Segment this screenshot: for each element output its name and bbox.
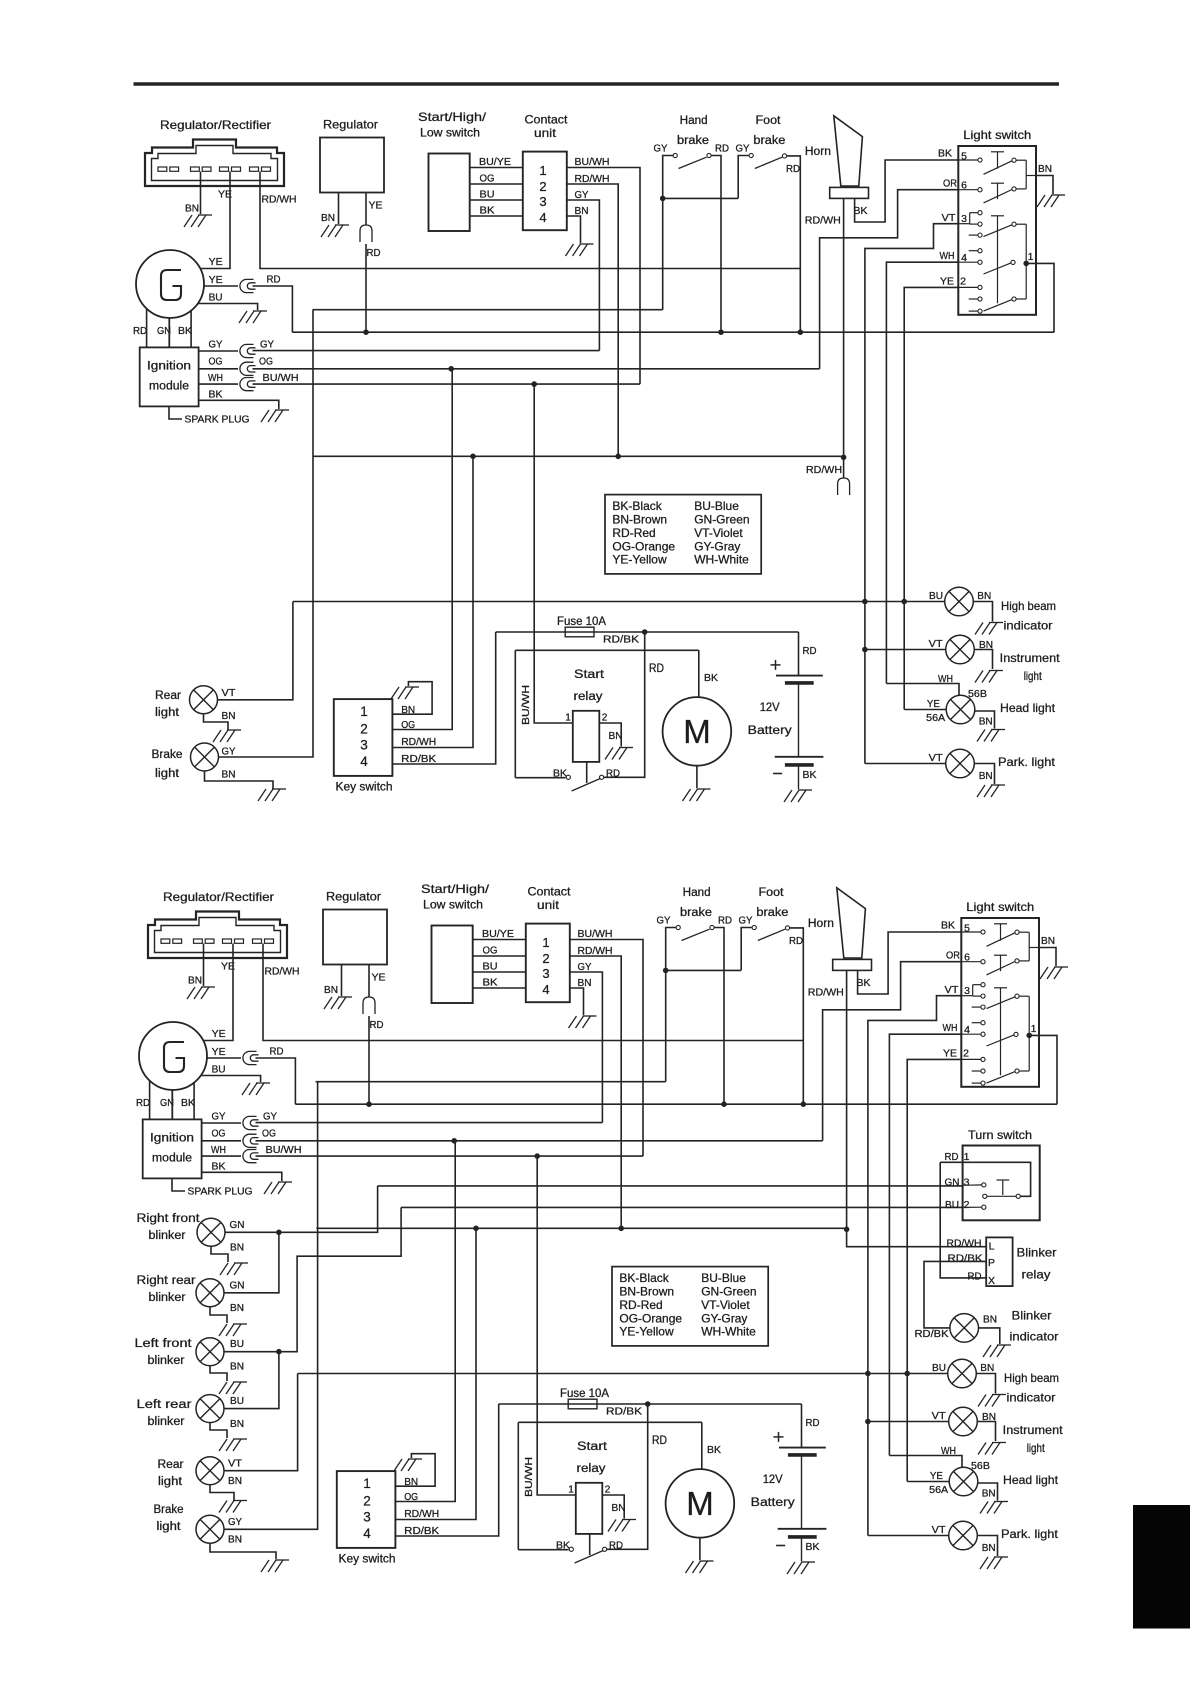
label 56B (B) bbox=[971, 1460, 990, 1472]
svg-text:YE: YE bbox=[943, 1047, 957, 1059]
svg-text:OG: OG bbox=[401, 719, 415, 731]
box Turn switch (B) bbox=[963, 1146, 1040, 1221]
legend colour codes (A) bbox=[605, 495, 761, 574]
battery 12V (B) bbox=[778, 1448, 827, 1561]
label Start/High/ Low switch (B) bbox=[421, 882, 490, 912]
label BN (B) bbox=[230, 1361, 244, 1373]
svg-text:BU: BU bbox=[483, 961, 498, 973]
wire key switch BN (A) bbox=[392, 682, 432, 715]
label GY (A) bbox=[654, 143, 668, 155]
svg-text:YE: YE bbox=[372, 972, 386, 984]
label RD GN BK (B) bbox=[136, 1097, 195, 1109]
label Rear light (A) bbox=[155, 690, 181, 719]
svg-text:BN: BN bbox=[230, 1242, 244, 1254]
svg-text:M: M bbox=[683, 713, 711, 750]
ground right rear blinker (B) bbox=[219, 1324, 247, 1336]
label High beam indicator (B) bbox=[1004, 1371, 1059, 1405]
wire brake light GY (A) bbox=[219, 310, 314, 757]
wire BU/YE switch-to-contact-unit (B) bbox=[473, 939, 527, 941]
ground blinker indicator (B) bbox=[983, 1345, 1011, 1357]
svg-text:Rear: Rear bbox=[155, 690, 181, 702]
label Left rear blinker (B) bbox=[137, 1399, 192, 1428]
switch Hand brake (B) bbox=[676, 925, 714, 940]
label OR (A) bbox=[943, 178, 957, 190]
svg-text:GY: GY bbox=[657, 915, 671, 927]
wire foot brake RD side (A) bbox=[787, 156, 801, 332]
connector pin slot 2 (B) bbox=[194, 939, 215, 943]
svg-text:BK: BK bbox=[704, 672, 718, 684]
svg-text:RD: RD bbox=[606, 768, 620, 780]
label GY (A) bbox=[736, 143, 750, 155]
svg-text:2: 2 bbox=[363, 1494, 371, 1509]
label Fuse 10A (A) bbox=[557, 616, 606, 628]
svg-text:BU/WH: BU/WH bbox=[523, 1457, 535, 1497]
wire key switch RD/WH (A) bbox=[392, 456, 473, 747]
svg-text:YE: YE bbox=[209, 256, 223, 268]
box Regulator (B) bbox=[323, 910, 387, 965]
svg-text:BU/YE: BU/YE bbox=[479, 156, 511, 168]
svg-text:VT: VT bbox=[228, 1458, 243, 1470]
wire WH feed light switch (B) bbox=[889, 1034, 961, 1455]
wire BU switch-to-contact-unit (B) bbox=[473, 971, 527, 973]
svg-text:BK: BK bbox=[803, 769, 817, 781]
label Head light (B) bbox=[1003, 1473, 1059, 1487]
junction on high beam run 2 (A) bbox=[902, 599, 907, 604]
wire BU/WH contact unit to module line (B) bbox=[569, 940, 643, 1157]
label RD/BK (B) bbox=[606, 1406, 642, 1418]
wire hand-to-foot brake link (A) bbox=[663, 197, 739, 199]
label BN (B) bbox=[230, 1242, 244, 1254]
generator G (B) bbox=[139, 1022, 207, 1090]
ground right front blinker (B) bbox=[220, 1263, 248, 1275]
svg-text:GY: GY bbox=[739, 915, 753, 927]
label Key switch (B) bbox=[339, 1554, 396, 1566]
svg-text:RD: RD bbox=[133, 325, 147, 337]
ground key switch BN (A) bbox=[391, 687, 419, 699]
label - battery (A) bbox=[773, 773, 782, 775]
svg-text:GN-Green: GN-Green bbox=[694, 513, 749, 527]
junction horn RD/WH (A) bbox=[841, 455, 846, 460]
svg-text:VT: VT bbox=[945, 984, 960, 996]
svg-text:3: 3 bbox=[542, 966, 549, 981]
ground brake light (A) bbox=[258, 789, 286, 801]
ground battery (B) bbox=[787, 1562, 815, 1574]
svg-text:RD: RD bbox=[789, 935, 803, 947]
svg-text:Foot: Foot bbox=[759, 887, 785, 899]
wire BN contact unit (A) bbox=[566, 216, 580, 243]
svg-text:Start/High/: Start/High/ bbox=[421, 882, 490, 896]
motor M (B) bbox=[666, 1469, 735, 1538]
label 1 (B) bbox=[568, 1485, 574, 1496]
svg-text:BK: BK bbox=[209, 389, 223, 401]
svg-text:indicator: indicator bbox=[1010, 1330, 1059, 1344]
ground high beam (A) bbox=[975, 623, 1003, 635]
wire YE from regulator (A) bbox=[365, 193, 367, 226]
label RD (B) bbox=[968, 1271, 982, 1283]
svg-text:Battery: Battery bbox=[748, 725, 792, 737]
label Blinker relay (B) bbox=[1017, 1246, 1057, 1282]
junction on high beam run 2 (B) bbox=[905, 1371, 910, 1376]
svg-text:RD/WH: RD/WH bbox=[806, 464, 842, 476]
label Regulator/Rectifier (B) bbox=[163, 890, 274, 904]
label RD/WH (A) bbox=[806, 464, 842, 476]
ground relay pin2 (B) bbox=[608, 1520, 636, 1532]
svg-text:L: L bbox=[989, 1241, 995, 1253]
label BU (B) bbox=[483, 961, 498, 973]
wire generator GN to module (A) bbox=[168, 318, 170, 347]
label BN (A) bbox=[222, 710, 236, 722]
label BN (B) bbox=[980, 1362, 994, 1374]
svg-text:GY: GY bbox=[736, 143, 750, 155]
svg-text:BN: BN bbox=[982, 1488, 996, 1500]
wire BU/WH contact unit to module line (A) bbox=[566, 168, 640, 385]
label 12V Battery (B) bbox=[751, 1474, 795, 1509]
label BN (B) bbox=[1041, 935, 1055, 947]
label RD GN BK (A) bbox=[133, 325, 192, 337]
wire left front blinker BN (B) bbox=[210, 1365, 227, 1381]
label Blinker indicator (B) bbox=[1010, 1309, 1059, 1344]
svg-text:X: X bbox=[988, 1275, 995, 1287]
label BN (B) bbox=[612, 1502, 626, 1514]
wire relay loop top (B) bbox=[518, 1421, 702, 1423]
junction left blinkers (B) bbox=[277, 1349, 282, 1354]
label BU/YE (A) bbox=[479, 156, 511, 168]
label Right front blinker (B) bbox=[137, 1213, 201, 1242]
label 56A (B) bbox=[929, 1484, 948, 1496]
contact BK start relay (B) bbox=[569, 1547, 573, 1551]
wire module GY to fork (A) bbox=[199, 350, 238, 352]
svg-text:2: 2 bbox=[605, 1485, 611, 1496]
svg-text:Blinker: Blinker bbox=[1017, 1246, 1057, 1260]
svg-text:GY: GY bbox=[263, 1111, 277, 1123]
connector fork GY (B) bbox=[243, 1116, 259, 1129]
label VT (A) bbox=[942, 212, 957, 224]
wire module WH to fork (B) bbox=[202, 1155, 241, 1157]
label Hand brake (A) bbox=[677, 115, 709, 147]
wire key switch RD/BK (A) bbox=[392, 632, 495, 764]
connector pin slot 3 (B) bbox=[223, 939, 244, 943]
wire foot brake RD side (B) bbox=[790, 928, 804, 1104]
wire hand-to-foot brake link (B) bbox=[666, 969, 742, 971]
svg-text:Park. light: Park. light bbox=[998, 755, 1056, 769]
svg-text:4: 4 bbox=[539, 210, 546, 225]
svg-text:BU/WH: BU/WH bbox=[263, 372, 299, 384]
lamp Right front blinker (B) bbox=[197, 1218, 225, 1246]
label + battery (B) bbox=[774, 1432, 784, 1442]
lamp High beam indicator (B) bbox=[948, 1359, 977, 1388]
wire start relay armature stem (A) bbox=[586, 762, 588, 783]
wire generator BK to module (A) bbox=[190, 311, 192, 348]
svg-text:RD/BK: RD/BK bbox=[948, 1253, 983, 1265]
lamp Left front blinker (B) bbox=[196, 1338, 224, 1366]
wire VT park light run (A) bbox=[865, 763, 946, 765]
label BK (B) bbox=[941, 920, 955, 932]
wire turn switch BU pin 2 inside (B) bbox=[963, 1206, 982, 1208]
label BN (B) bbox=[982, 1542, 996, 1554]
wire main RD run (A) bbox=[292, 331, 1054, 333]
label YE (B) bbox=[221, 961, 235, 973]
label BN (A) bbox=[979, 770, 993, 782]
label Instrument light (B) bbox=[1003, 1423, 1064, 1455]
svg-text:56B: 56B bbox=[971, 1460, 990, 1472]
ground light switch BN (A) bbox=[1037, 195, 1065, 207]
wire RD/WH rectifier feed (A) bbox=[260, 172, 800, 269]
wire spark plug stub (B) bbox=[172, 1178, 185, 1191]
svg-text:Start/High/: Start/High/ bbox=[418, 110, 487, 124]
svg-text:1: 1 bbox=[565, 713, 571, 724]
svg-text:GN: GN bbox=[230, 1280, 245, 1292]
wire WH into head light (A) bbox=[886, 684, 959, 697]
label BK (B) bbox=[483, 977, 498, 989]
svg-text:GY-Gray: GY-Gray bbox=[694, 539, 740, 553]
svg-text:BU: BU bbox=[480, 189, 495, 201]
ground instrument light (B) bbox=[978, 1443, 1006, 1455]
label RD/WH (B) bbox=[947, 1238, 982, 1250]
svg-text:blinker: blinker bbox=[148, 1355, 185, 1367]
light switch internal contacts (A) bbox=[958, 152, 1036, 313]
svg-text:YE: YE bbox=[930, 1470, 943, 1482]
connector pin slot 4 (B) bbox=[253, 939, 274, 943]
svg-text:12V: 12V bbox=[763, 1474, 783, 1486]
label Regulator (A) bbox=[323, 118, 378, 132]
page top rule bbox=[134, 82, 1060, 86]
svg-text:Head light: Head light bbox=[1003, 1473, 1059, 1487]
svg-text:RD/WH: RD/WH bbox=[265, 966, 300, 978]
connector bullet horn lead (A) bbox=[838, 478, 850, 495]
svg-text:YE: YE bbox=[927, 698, 940, 710]
wire generator YE to fork (B) bbox=[207, 1057, 241, 1059]
junction foot brake RD (B) bbox=[801, 1102, 806, 1107]
svg-text:OG: OG bbox=[262, 1128, 276, 1140]
label Key switch (A) bbox=[336, 782, 393, 794]
wire relay loop bottom (B) bbox=[518, 1549, 568, 1551]
label WH (A) bbox=[938, 673, 953, 685]
svg-text:BN: BN bbox=[188, 975, 202, 987]
svg-text:BU-Blue: BU-Blue bbox=[701, 1271, 746, 1285]
label BN (B) bbox=[982, 1411, 996, 1423]
svg-text:light: light bbox=[158, 1476, 183, 1488]
svg-text:light: light bbox=[155, 768, 180, 780]
svg-text:blinker: blinker bbox=[149, 1230, 186, 1242]
box Key switch (B) bbox=[337, 1471, 396, 1548]
svg-text:Regulator: Regulator bbox=[326, 890, 381, 904]
lamp Brake light (B) bbox=[196, 1515, 224, 1543]
svg-text:RD: RD bbox=[270, 1046, 284, 1058]
svg-text:BN: BN bbox=[321, 212, 335, 224]
wire generator RD to module (B) bbox=[149, 1081, 151, 1120]
label OG (A) bbox=[401, 719, 415, 731]
lamp Rear light (A) bbox=[190, 686, 218, 714]
label YE (B) bbox=[372, 972, 386, 984]
wire left rear blinker BN (B) bbox=[210, 1422, 227, 1438]
wire module BK (B) bbox=[202, 1172, 282, 1181]
svg-text:Blinker: Blinker bbox=[1012, 1309, 1052, 1323]
wire generator YE to rectifier (A) bbox=[200, 172, 230, 269]
svg-text:VT: VT bbox=[932, 1524, 947, 1536]
svg-text:BK: BK bbox=[854, 205, 868, 217]
wire BN from rectifier pin 2 (B) bbox=[203, 944, 205, 987]
wire park light ground lead (B) bbox=[977, 1536, 997, 1557]
svg-text:GY: GY bbox=[212, 1111, 226, 1123]
ground contact unit BN (A) bbox=[566, 244, 594, 256]
svg-text:BN: BN bbox=[230, 1302, 244, 1314]
label Start relay (B) bbox=[577, 1441, 608, 1475]
svg-text:brake: brake bbox=[677, 135, 709, 147]
wire pin4 WH inside (A) bbox=[958, 261, 978, 263]
wire pin2 YE inside (A) bbox=[958, 286, 978, 288]
wire WH into head light (B) bbox=[889, 1456, 962, 1469]
svg-text:VT: VT bbox=[929, 752, 944, 764]
label BN (A) bbox=[401, 704, 415, 716]
generator G (A) bbox=[136, 250, 204, 318]
svg-text:BU: BU bbox=[932, 1362, 946, 1374]
wire light switch terminal 1 feed (B) bbox=[1029, 1035, 1057, 1104]
svg-text:BK-Black: BK-Black bbox=[619, 1271, 669, 1285]
svg-text:GY: GY bbox=[209, 339, 223, 351]
svg-text:56A: 56A bbox=[929, 1484, 948, 1496]
svg-text:Key switch: Key switch bbox=[336, 782, 393, 794]
wire key switch BN (B) bbox=[395, 1454, 435, 1487]
wire BN contact unit (B) bbox=[569, 988, 583, 1015]
connector Regulator/Rectifier shell (A) bbox=[145, 140, 284, 187]
wire RD fork to main feed (A) bbox=[253, 286, 293, 332]
svg-text:BU: BU bbox=[929, 590, 943, 602]
wire high beam ground lead (B) bbox=[976, 1374, 995, 1394]
wire RD regulator to main feed (A) bbox=[365, 244, 367, 332]
wire rear light VT (A) bbox=[218, 602, 293, 700]
svg-text:Park. light: Park. light bbox=[1001, 1527, 1059, 1541]
label BU (B) bbox=[932, 1362, 946, 1374]
wire relay coil pin2 (B) bbox=[602, 1495, 624, 1519]
svg-text:YE: YE bbox=[212, 1028, 226, 1040]
svg-text:RD: RD bbox=[649, 663, 664, 675]
box Ignition module (B) bbox=[143, 1119, 202, 1178]
wire GY contact unit down (B) bbox=[569, 972, 602, 1123]
wire generator YE to rectifier (B) bbox=[203, 944, 233, 1041]
wire motor ground lead (B) bbox=[699, 1538, 701, 1560]
wire rear light VT (B) bbox=[224, 1374, 298, 1471]
svg-text:BN: BN bbox=[222, 710, 236, 722]
wire RD to relay contact (A) bbox=[604, 632, 645, 777]
wire key switch OG (A) bbox=[392, 369, 452, 730]
lamp Right rear blinker (B) bbox=[196, 1279, 224, 1307]
svg-text:OG-Orange: OG-Orange bbox=[612, 539, 675, 553]
wire GY brake run (A) bbox=[313, 309, 663, 311]
box Ignition module (A) bbox=[140, 347, 199, 406]
ground instrument light (A) bbox=[975, 671, 1003, 683]
label YE (A) bbox=[209, 256, 223, 268]
fuse 10A (A) bbox=[565, 627, 594, 637]
wire rear light BN (A) bbox=[204, 714, 229, 730]
label BU/WH (A) bbox=[575, 156, 610, 168]
svg-text:GY-Gray: GY-Gray bbox=[701, 1311, 747, 1325]
label Turn switch (B) bbox=[968, 1128, 1032, 1142]
label RD/WH (B) bbox=[404, 1508, 439, 1520]
svg-text:Start: Start bbox=[574, 669, 605, 681]
box Regulator (A) bbox=[320, 138, 384, 193]
label 3 (B) bbox=[964, 1177, 970, 1189]
svg-text:Light switch: Light switch bbox=[963, 128, 1031, 142]
label OG (B) bbox=[262, 1128, 276, 1140]
connector pin slot 1 (B) bbox=[161, 939, 182, 943]
svg-text:Low switch: Low switch bbox=[423, 898, 483, 912]
svg-text:RD/BK: RD/BK bbox=[606, 1406, 642, 1418]
svg-text:BU/WH: BU/WH bbox=[578, 928, 613, 940]
label RD (B) bbox=[945, 1151, 959, 1163]
lamp Instrument light (B) bbox=[949, 1407, 978, 1436]
svg-text:RD/WH: RD/WH bbox=[947, 1238, 982, 1250]
junction RD/WH (A) bbox=[616, 454, 621, 459]
wire key switch RD/WH (B) bbox=[395, 1228, 476, 1519]
junction RD/WH (B) bbox=[619, 1226, 624, 1231]
connector fork generator YE/RD (A) bbox=[240, 279, 256, 292]
wire light switch BN (B) bbox=[1039, 948, 1056, 967]
wire instrument ground lead (B) bbox=[977, 1422, 995, 1442]
ground left rear blinker (B) bbox=[219, 1439, 247, 1451]
label BK (A) bbox=[480, 205, 495, 217]
wire RD/WH rectifier feed (B) bbox=[263, 944, 803, 1041]
svg-text:RD/WH: RD/WH bbox=[404, 1508, 439, 1520]
svg-text:Key switch: Key switch bbox=[339, 1554, 396, 1566]
connector fork generator YE/RD (B) bbox=[243, 1051, 259, 1064]
svg-text:RD/BK: RD/BK bbox=[603, 634, 639, 646]
svg-text:RD/WH: RD/WH bbox=[262, 194, 297, 206]
label GN (B) bbox=[230, 1280, 245, 1292]
wire head light ground lead (A) bbox=[975, 711, 995, 729]
label WH (B) bbox=[211, 1144, 226, 1156]
contact RD start relay (A) bbox=[600, 775, 604, 779]
svg-text:5: 5 bbox=[964, 923, 970, 935]
junction RD/WH key switch (A) bbox=[471, 454, 476, 459]
svg-text:BK: BK bbox=[178, 325, 192, 337]
wire pin4 WH inside (B) bbox=[961, 1033, 981, 1035]
label Horn (B) bbox=[808, 918, 834, 930]
wire brake light BN (B) bbox=[210, 1543, 276, 1559]
label RD (B) bbox=[652, 1435, 667, 1447]
wire horn BK to light switch (B) bbox=[858, 932, 962, 994]
wire pin5 BK inside (A) bbox=[958, 159, 978, 161]
label RD (B) bbox=[806, 1417, 820, 1429]
label BN (A) bbox=[321, 212, 335, 224]
label BN (B) bbox=[983, 1314, 997, 1326]
junction VT instrument (B) bbox=[866, 1419, 871, 1424]
ground relay pin2 (A) bbox=[605, 748, 633, 760]
ground module BK (A) bbox=[261, 410, 289, 422]
box Light switch (B) bbox=[961, 918, 1039, 1087]
label BU (B) bbox=[212, 1064, 226, 1076]
wire BK to motor (A) bbox=[698, 650, 700, 697]
svg-text:1: 1 bbox=[360, 704, 368, 719]
wire start relay armature stem (B) bbox=[589, 1534, 591, 1555]
label Instrument light (A) bbox=[1000, 651, 1061, 683]
connector bullet on regulator lead (A) bbox=[360, 225, 372, 242]
wire instrument ground lead (A) bbox=[974, 650, 992, 670]
svg-text:BN: BN bbox=[222, 769, 236, 781]
label VT (A) bbox=[222, 687, 237, 699]
svg-text:VT: VT bbox=[942, 212, 957, 224]
switch Hand brake (A) bbox=[673, 153, 711, 168]
wire GY brake run (B) bbox=[316, 1081, 666, 1083]
wire right front blinker BN (B) bbox=[211, 1246, 228, 1262]
svg-text:Horn: Horn bbox=[805, 146, 831, 158]
svg-text:1: 1 bbox=[539, 163, 546, 178]
wire hand brake GY side (B) bbox=[666, 928, 676, 1082]
svg-text:Regulator/Rectifier: Regulator/Rectifier bbox=[163, 890, 274, 904]
wire BU/WH long run (A) bbox=[253, 383, 641, 385]
svg-text:5: 5 bbox=[961, 151, 967, 163]
label SPARK PLUG (A) bbox=[185, 415, 250, 426]
label pin numbers 5 6 3 4 2 (A) bbox=[960, 151, 967, 288]
